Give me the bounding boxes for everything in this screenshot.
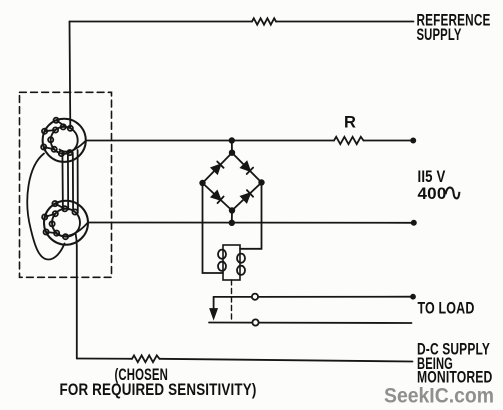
node: bridge bottom vertex: [230, 208, 235, 213]
wire bridge left output down: [203, 183, 224, 273]
terminal dot 115V lower: [412, 221, 416, 225]
left loop-back arc wire (winding return): [27, 154, 64, 260]
wire bridge edge left-bottom: [203, 183, 233, 211]
K1 winding loops: [218, 250, 226, 259]
wire bridge edge top-right: [232, 153, 262, 183]
T1 winding chords: [56, 120, 66, 127]
wire left vertical drop from top wire to core T1: [69, 22, 72, 128]
wire monitored supply left vertical: [76, 246, 78, 359]
relay coil K1: [218, 245, 245, 280]
T2 drop lead through core: [76, 233, 77, 246]
svg-text:II5 V: II5 V: [418, 168, 446, 186]
wire bridge top link: [231, 141, 233, 153]
svg-text:SeekIC.com: SeekIC.com: [384, 384, 494, 407]
wire bridge edge left-top: [203, 153, 233, 183]
wire lower contact line: [209, 322, 412, 325]
wire 115V lower line: [88, 222, 414, 224]
contact terminal lower: [252, 319, 258, 325]
svg-text:R: R: [344, 114, 356, 132]
sine symbol: [446, 187, 460, 198]
T2 winding chords: [55, 204, 65, 209]
resistor R1 (reference supply): [252, 18, 276, 24]
diode CR1: [212, 162, 224, 174]
T1 winding loops outer: [54, 118, 59, 123]
wire top horizontal right segment: [276, 21, 414, 23]
contact terminal upper: [252, 294, 258, 300]
wire 115V upper line: [86, 140, 334, 142]
diode CR4: [241, 190, 253, 202]
wire 115V upper line right segment: [364, 140, 414, 142]
terminal dot 115V upper: [411, 138, 415, 142]
wire monitored supply bottom left segment: [77, 358, 132, 360]
diode CR2: [241, 162, 253, 174]
T2 inner exit arc to 115V lower wire: [57, 223, 88, 237]
wire monitored supply bottom right segment: [160, 359, 413, 362]
T1 inner exit arc to 115V wire: [60, 141, 86, 152]
diode CR3: [212, 191, 224, 203]
node: bridge top vertex: [230, 150, 235, 155]
toroid core T2 (lower): [42, 201, 88, 246]
resistor R2 (sensitivity): [132, 355, 160, 362]
svg-text:FOR REQUIRED SENSITIVITY): FOR REQUIRED SENSITIVITY): [60, 381, 257, 399]
wire bridge edge bottom-right: [232, 183, 262, 211]
wire bridge bottom link: [231, 211, 233, 223]
T1 winding loops inner: [53, 127, 58, 132]
node: bridge bottom junction: [230, 221, 235, 226]
node: bridge right vertex: [259, 180, 264, 185]
dashed enclosure (magnetic amplifier): [20, 92, 112, 277]
relay armature arrow: [210, 297, 216, 318]
svg-text:TO LOAD: TO LOAD: [418, 300, 475, 318]
wire top horizontal (reference supply line): [70, 21, 253, 23]
wire upper contact line: [214, 296, 413, 298]
svg-text:400: 400: [418, 185, 447, 203]
winding lines between cores: [61, 152, 64, 211]
dashed actuation link: [231, 280, 233, 323]
T2 winding loops outer: [52, 201, 57, 206]
toroid core T1 (upper): [41, 118, 86, 162]
T2 winding loops inner: [72, 209, 77, 214]
resistor R (series): [334, 137, 364, 144]
svg-text:SUPPLY: SUPPLY: [417, 26, 462, 44]
node: bridge left vertex: [200, 181, 205, 186]
wire bridge right output down: [240, 183, 262, 249]
node: bridge top junction: [230, 138, 235, 143]
